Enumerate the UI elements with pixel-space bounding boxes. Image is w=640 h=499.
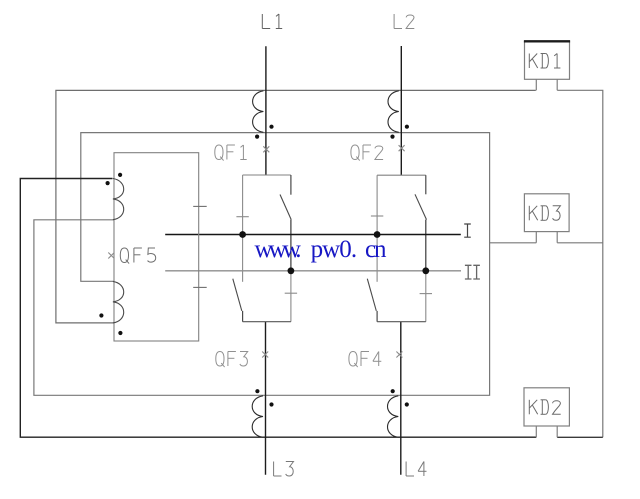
breaker QF2 blade xyxy=(415,194,427,219)
svg-text:pw0.: pw0. xyxy=(311,236,358,263)
node: QF1 right leg / bus II xyxy=(288,267,295,274)
node: QF1 left leg / bus I xyxy=(239,231,246,238)
bus I (section I busbar) xyxy=(165,234,461,236)
relay KD2 box xyxy=(524,388,569,426)
breaker QF4 cubicle bottom bar xyxy=(377,321,426,323)
breaker QF1 blade xyxy=(280,195,291,220)
marker x QF5 xyxy=(108,253,114,259)
CT L2 polarity dots xyxy=(405,125,409,129)
relay KD1 top edge (thick) xyxy=(524,40,570,42)
label II (bus II) xyxy=(465,265,480,279)
CT L3 polarity dots xyxy=(255,389,259,393)
line L4 outgoing feeder xyxy=(400,322,402,475)
breaker QF1 left leg xyxy=(242,175,244,235)
label I (bus I) xyxy=(464,224,471,237)
wire: KD2 secondary circuit left loop (black, y=437 bottom run) xyxy=(20,179,536,438)
breaker QF3 cubicle bottom bar xyxy=(243,321,291,323)
label QF4 xyxy=(349,352,381,368)
breaker QF2 right leg lower (to bus II) xyxy=(425,220,427,271)
breaker QF1 right leg lower (to bus II) xyxy=(290,220,292,271)
label L2 xyxy=(394,14,414,29)
label KD1 xyxy=(529,54,560,69)
CT on line L3 (winding) xyxy=(252,396,263,437)
relay KD1 pin stubs xyxy=(536,79,557,90)
node: QF2 right leg / bus II xyxy=(422,267,429,274)
label QF3 xyxy=(216,352,248,368)
breaker QF3 left leg lower xyxy=(242,311,244,322)
CT QF5 lower polarity dots xyxy=(99,313,103,317)
CT L4 polarity dots xyxy=(391,389,395,393)
breaker QF1 cubicle top bar xyxy=(243,174,291,176)
breaker QF4 left leg upper (from bus I) xyxy=(376,235,378,282)
CT QF5 upper polarity dots xyxy=(118,173,122,177)
wire loop: KD3 secondary circuit (y=132.6 run, x=489.6 vertical, y=395.3 run) xyxy=(34,133,490,396)
breaker QF3 blade xyxy=(233,279,242,311)
line L3 outgoing feeder xyxy=(265,322,267,475)
label L3 xyxy=(274,462,294,477)
wire: KD3 right lead to return bus xyxy=(557,242,603,244)
marker x QF3 xyxy=(262,352,268,358)
CT on QF5 upper (winding) xyxy=(113,179,124,220)
CT on line L4 (winding) xyxy=(388,396,399,437)
breaker QF2 right leg upper xyxy=(425,175,427,194)
breaker QF4 right-leg contact tick xyxy=(420,293,432,295)
breaker QF1 right leg upper xyxy=(290,175,292,195)
label QF5 xyxy=(120,248,155,264)
wire: KD2 right lead xyxy=(557,436,603,438)
relay KD3 box xyxy=(524,194,569,232)
wire: KD3 left lead from x=489.6 vertical xyxy=(490,242,537,244)
breaker QF3 right-leg contact tick xyxy=(285,292,297,294)
label QF2 xyxy=(351,145,383,161)
breaker QF2 left leg xyxy=(376,175,378,234)
marker x QF2 xyxy=(399,145,405,151)
breaker QF4 blade xyxy=(367,279,376,311)
breaker QF1 left-leg contact tick xyxy=(236,216,248,218)
CT on line L2 (winding) xyxy=(388,91,399,133)
wire: KD1/KD2 right-side return bus (x=602.8) xyxy=(557,90,603,437)
breaker QF2 cubicle top bar xyxy=(377,174,426,176)
breaker QF2 left-leg contact tick xyxy=(371,215,383,217)
bus II (section II busbar) xyxy=(165,270,461,272)
label KD2 xyxy=(529,400,560,415)
svg-text:cn: cn xyxy=(365,236,387,263)
breaker QF4 right leg (from bus II) xyxy=(425,271,427,322)
label L1 xyxy=(262,14,282,29)
node: QF2 left leg / bus I xyxy=(374,231,381,238)
bus-tie QF5 enclosure box xyxy=(114,153,199,341)
label QF1 xyxy=(215,145,247,161)
line L2 incoming feeder xyxy=(400,46,402,175)
relay KD1 box xyxy=(525,42,570,80)
marker x QF4 xyxy=(396,352,402,358)
CT on line L1 (winding) xyxy=(253,91,264,133)
QF5 contact tick upper xyxy=(193,205,207,207)
breaker QF3 right leg (from bus II) xyxy=(290,271,292,322)
wire loop: KD1 secondary circuit (y=90 top run, left side down to QF5 lower CT outer terminal) xyxy=(56,90,536,323)
breaker QF3 left leg upper (from bus I) xyxy=(242,235,244,282)
breaker QF4 left leg lower xyxy=(376,311,378,322)
marker x QF1 xyxy=(263,146,269,152)
CT on QF5 lower (winding) xyxy=(113,281,124,323)
label L4 xyxy=(406,462,426,477)
svg-text:www.: www. xyxy=(255,236,302,263)
label KD3 xyxy=(529,206,560,221)
relay KD3 pin stubs xyxy=(536,232,557,243)
relay KD2 pin stubs xyxy=(536,426,557,437)
CT L1 polarity dots xyxy=(269,125,273,129)
line L1 incoming feeder xyxy=(265,46,267,175)
QF5 contact tick lower xyxy=(193,286,207,288)
